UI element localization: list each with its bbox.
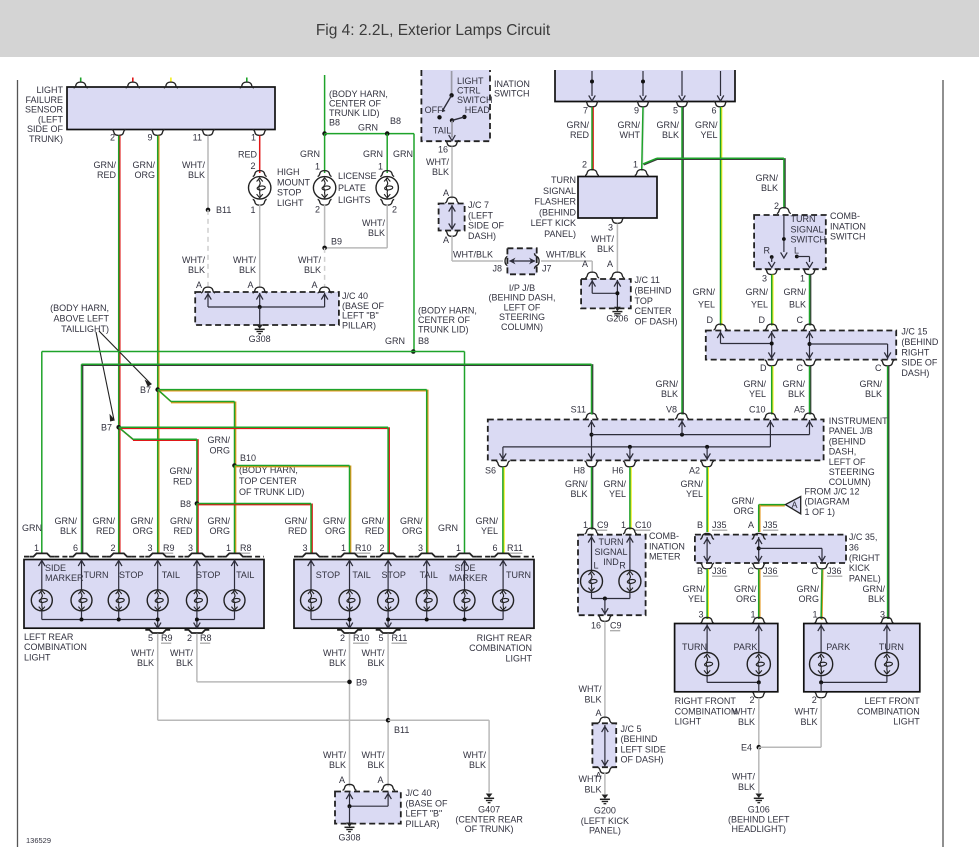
svg-text:LEFT REAR: LEFT REAR [24,632,74,642]
svg-text:B: B [697,566,703,576]
svg-text:RED: RED [570,130,590,140]
svg-text:G206: G206 [606,314,628,324]
light failure sensor box [67,87,275,130]
svg-text:PANEL): PANEL) [589,826,621,836]
svg-text:5: 5 [148,633,153,643]
svg-text:BLK: BLK [570,489,587,499]
svg-text:J/C 5: J/C 5 [621,724,642,734]
svg-text:1: 1 [34,543,39,553]
svg-text:ORG: ORG [798,594,819,604]
svg-text:GRN/: GRN/ [734,584,757,594]
svg-text:1 OF 1): 1 OF 1) [805,507,836,517]
wire GRN/ORG B10 continues to left rear pin1 R8 [235,466,237,554]
wire WHT/BLK I/P J/B to J/C11 [541,260,592,262]
svg-text:TOP: TOP [635,296,653,306]
svg-text:PILLAR): PILLAR) [342,320,376,330]
right rear combination light box [294,560,534,629]
svg-text:FROM J/C 12: FROM J/C 12 [805,487,860,497]
svg-text:2: 2 [250,161,255,171]
svg-text:HEAD: HEAD [465,105,491,115]
svg-text:RED: RED [288,526,308,536]
wire GRN/ORG J/C35 C to right front park [759,569,761,619]
svg-text:L: L [594,561,599,571]
right rear combination light bulb 2 [339,590,360,611]
svg-text:BLK: BLK [329,658,346,668]
svg-text:WHT/BLK: WHT/BLK [546,250,586,260]
J/C11 internal wiring [591,280,593,293]
svg-text:A: A [377,775,383,785]
svg-text:GRN/: GRN/ [131,516,154,526]
wire GRN/BLK J/C15 C to A5 [810,366,812,415]
svg-text:D: D [707,315,714,325]
svg-text:A: A [791,500,797,510]
svg-text:TURN: TURN [551,175,576,185]
svg-text:OF TRUNK): OF TRUNK) [465,824,514,834]
svg-text:GRN/: GRN/ [863,584,886,594]
svg-text:TOP CENTER: TOP CENTER [239,476,297,486]
splice B11 top [206,208,211,213]
svg-text:TURN: TURN [682,642,707,652]
turn signal switch bottom arcs [765,269,779,275]
svg-text:36: 36 [849,542,859,552]
svg-text:YEL: YEL [700,130,717,140]
svg-text:GRN/: GRN/ [744,379,767,389]
wire GRN/BLK ign pin5 to V8 [682,107,684,415]
svg-text:136529: 136529 [26,836,51,845]
svg-text:INATION: INATION [830,221,866,231]
left front combination light box [804,624,920,692]
wire GRN/ORG B7 diagonal branch to B10 [159,390,172,402]
right rear combination light bulb 3 [378,590,399,611]
svg-text:YEL: YEL [686,489,703,499]
turn signal flasher box [578,177,657,219]
svg-text:(BASE OF: (BASE OF [406,798,449,808]
svg-text:TAIL: TAIL [433,126,451,136]
svg-text:YEL: YEL [609,489,626,499]
svg-text:1: 1 [583,520,588,530]
svg-text:GRN/: GRN/ [783,379,806,389]
svg-text:G308: G308 [249,334,271,344]
wire GRN tail bus y351 to rear side markers [41,352,43,554]
svg-text:HIGH: HIGH [277,167,300,177]
svg-text:WHT/: WHT/ [233,255,256,265]
svg-text:GRN/: GRN/ [208,435,231,445]
wire WHT/BLK right front to E4 [758,698,760,747]
svg-text:S6: S6 [485,466,496,476]
svg-text:CTRL: CTRL [457,86,481,96]
svg-text:WHT/: WHT/ [463,750,486,760]
svg-text:YEL: YEL [688,594,705,604]
junction connector J/C 15 box [706,331,896,360]
svg-text:TAIL: TAIL [352,570,370,580]
svg-text:(BEHIND: (BEHIND [635,285,673,295]
left border [17,80,19,847]
svg-text:GRN/: GRN/ [657,120,680,130]
svg-text:OF TRUNK LID): OF TRUNK LID) [239,487,304,497]
left front combination light pin arcs [814,617,828,623]
svg-text:BLK: BLK [469,760,486,770]
svg-text:E4: E4 [741,743,752,753]
svg-text:1: 1 [456,543,461,553]
svg-text:ABOVE LEFT: ABOVE LEFT [53,314,109,324]
J/C15 internal wiring [720,331,722,344]
svg-text:C10: C10 [749,405,766,415]
svg-text:WHT/BLK: WHT/BLK [453,250,493,260]
svg-text:J35: J35 [712,520,727,530]
svg-text:GRN/: GRN/ [400,516,423,526]
svg-text:LEFT OF: LEFT OF [504,302,541,312]
svg-text:RED: RED [173,526,193,536]
svg-text:H6: H6 [612,466,624,476]
svg-text:3: 3 [302,543,307,553]
svg-text:(BEHIND: (BEHIND [621,734,659,744]
wire WHT/BLK high mount to J/C40 [259,204,261,288]
svg-text:TURN: TURN [791,214,816,224]
wire GRN/WHT ign pin9 to flasher pin1 [643,108,644,172]
svg-text:BLK: BLK [432,167,449,177]
svg-text:R10: R10 [355,543,372,553]
svg-text:GRN/: GRN/ [170,516,193,526]
svg-text:GRN/: GRN/ [565,479,588,489]
svg-text:ORG: ORG [736,594,757,604]
svg-text:7: 7 [583,106,588,116]
wire GRN flasher pin1 to turn signal switch pin2 [644,159,658,165]
svg-text:COMBINATION: COMBINATION [857,706,920,716]
svg-text:2: 2 [110,543,115,553]
right rear combination light bulb 6 [493,590,514,611]
svg-text:SIGNAL: SIGNAL [594,547,627,557]
svg-text:RED: RED [238,150,258,160]
svg-text:TURN: TURN [506,570,531,580]
wire GRN B8 bus to right [325,133,414,135]
wire WHT/BLK switch pin16 to J/C7 [451,147,453,199]
svg-text:KICK: KICK [849,563,870,573]
svg-text:TURN: TURN [84,570,109,580]
svg-text:B11: B11 [216,205,231,215]
instrument panel J/B bottom arcs [496,461,510,467]
svg-text:A2: A2 [689,466,700,476]
wire GRN/BLK tss pin1 to J/C15 [810,275,812,326]
svg-text:TRUNK): TRUNK) [29,134,63,144]
wire GRN/BLK J/C15 C to left front turn [888,366,890,619]
svg-text:YEL: YEL [749,389,766,399]
svg-text:BLK: BLK [800,717,817,727]
ground G206 [614,307,621,311]
svg-text:GRN/: GRN/ [55,516,78,526]
svg-text:(BASE OF: (BASE OF [342,301,385,311]
svg-text:YEL: YEL [698,300,715,310]
svg-text:WHT/: WHT/ [362,648,385,658]
svg-text:G200: G200 [594,806,616,816]
wire WHT/BLK B11 to G407 [388,719,489,721]
svg-text:STOP: STOP [382,570,406,580]
light control switch box [421,70,490,141]
svg-text:DASH): DASH) [468,231,496,241]
svg-text:3: 3 [418,543,423,553]
svg-text:ORG: ORG [209,526,230,536]
svg-text:GRN/: GRN/ [683,584,706,594]
svg-text:FLASHER: FLASHER [534,197,576,207]
wire GRN/YEL tss pin3 to J/C15 [772,275,774,326]
flasher bottom pin arc [610,218,624,224]
splice B10 [232,463,237,468]
svg-text:B: B [697,520,703,530]
svg-text:BLK: BLK [662,130,679,140]
svg-text:DASH): DASH) [901,368,929,378]
svg-text:GRN: GRN [22,523,42,533]
svg-text:1: 1 [812,610,817,620]
light switch internal contacts [451,71,453,95]
svg-text:WHT/: WHT/ [131,648,154,658]
title bar [0,0,979,57]
svg-text:3: 3 [762,274,767,284]
svg-text:OF DASH): OF DASH) [635,317,678,327]
wire GRN/ORG B7 to right rear tail pin3 [158,390,427,392]
svg-text:LICENSE: LICENSE [338,171,377,181]
svg-text:STEERING: STEERING [829,467,875,477]
left rear combination light bulb 4 [147,590,168,611]
junction connector J/C 40 bottom box [335,792,401,824]
svg-text:LIGHTS: LIGHTS [338,195,371,205]
turn signal switch pin2 arc [777,208,791,214]
svg-text:C: C [797,315,804,325]
svg-text:RED: RED [96,526,116,536]
svg-text:(BEHIND: (BEHIND [901,337,939,347]
pin 16 arc light switch [445,141,459,147]
svg-text:WHT/: WHT/ [298,255,321,265]
svg-text:(CENTER REAR: (CENTER REAR [455,815,523,825]
license plate light bulb 1 [318,171,332,177]
meter top arcs [585,528,599,534]
svg-text:S11: S11 [571,405,586,415]
svg-text:WHT/: WHT/ [579,684,602,694]
right front park bulb [747,653,770,676]
svg-text:LEFT SIDE: LEFT SIDE [621,744,666,754]
svg-text:2: 2 [340,633,345,643]
svg-text:GRN/: GRN/ [756,173,779,183]
svg-text:R11: R11 [507,543,523,553]
svg-text:GRN/: GRN/ [746,287,769,297]
svg-text:J36: J36 [827,566,842,576]
svg-text:PLATE: PLATE [338,183,366,193]
svg-text:WHT/: WHT/ [732,772,755,782]
wire GRN/YEL S6 to right rear pin6 [503,467,505,553]
turn signal ind bulb R [619,570,641,592]
ground G200 [602,795,609,799]
svg-text:B7: B7 [140,385,151,395]
svg-text:GRN/: GRN/ [208,516,231,526]
svg-text:(BEHIND: (BEHIND [539,207,577,217]
wire GRN/YEL ign pin6 to J/C15 pin D [721,107,723,326]
svg-text:BLK: BLK [176,658,193,668]
svg-text:2: 2 [187,633,192,643]
svg-text:WHT/: WHT/ [323,750,346,760]
svg-text:CENTER: CENTER [635,306,673,316]
left front bottom pin [814,692,828,698]
wire GRN/RED B8 to right rear stop pin3 [197,504,311,506]
ignition switch box (cut at top) [555,70,735,102]
svg-text:PANEL): PANEL) [544,229,576,239]
wire GRN/ORG J/C35 C to left front park [821,570,824,620]
svg-text:LIGHT: LIGHT [505,653,532,663]
svg-text:LEFT "B": LEFT "B" [342,311,379,321]
svg-text:R8: R8 [240,543,252,553]
svg-text:GRN/: GRN/ [94,160,117,170]
right rear combination light connector dashed line with pin hats [294,556,299,558]
svg-text:TAIL: TAIL [420,570,438,580]
svg-text:C: C [812,566,819,576]
splice B7 upper [155,387,160,392]
svg-text:R9: R9 [163,543,175,553]
svg-text:B8: B8 [329,118,340,128]
svg-text:A: A [443,235,449,245]
svg-text:SIDE: SIDE [455,563,476,573]
splice B8 stop circuit [195,501,200,506]
svg-text:WHT/: WHT/ [182,160,205,170]
turn signal switch internals [783,216,785,252]
ground G407 [486,794,493,798]
svg-text:STOP: STOP [196,570,220,580]
svg-text:1: 1 [621,520,626,530]
svg-text:GRN/: GRN/ [695,120,718,130]
svg-text:BLK: BLK [188,170,205,180]
svg-text:SWITCH: SWITCH [791,235,827,245]
svg-text:GRN/: GRN/ [567,120,590,130]
svg-text:INSTRUMENT: INSTRUMENT [829,416,888,426]
splice B11 bottom [386,718,391,723]
svg-text:(BODY HARN,: (BODY HARN, [50,303,109,313]
svg-text:J/C 11: J/C 11 [635,275,660,285]
turn signal ind bulb L [581,570,603,592]
wire WHT/BLK E4 to G106 [758,747,760,793]
wire WHT/BLK license bulb2 to B9 [386,204,388,248]
svg-text:GRN/: GRN/ [656,379,679,389]
svg-text:2: 2 [392,205,397,215]
svg-text:A: A [247,280,253,290]
wire GRN/BLK H8 to meter C9 [592,467,594,530]
svg-text:WHT/: WHT/ [362,218,385,228]
ground G308 top [256,325,263,329]
svg-text:A: A [582,259,588,269]
svg-text:3: 3 [188,543,193,553]
splice B8 left [322,131,327,136]
svg-text:PANEL J/B: PANEL J/B [829,426,873,436]
svg-text:1: 1 [250,205,255,215]
svg-text:GRN/: GRN/ [618,120,641,130]
splice B8 right [385,131,390,136]
instrument panel J/B internal wiring [591,420,593,460]
svg-text:1: 1 [341,543,346,553]
svg-text:C: C [797,363,804,373]
svg-text:WHT/: WHT/ [579,774,602,784]
ground G106 [756,794,763,798]
svg-text:HEADLIGHT): HEADLIGHT) [732,824,787,834]
svg-text:GRN: GRN [358,123,378,133]
junction connector J/C 5 box [598,717,612,723]
right rear combination light bulb 4 [416,590,437,611]
svg-text:6: 6 [492,543,497,553]
high mount stop light bulb [253,171,267,177]
svg-text:3: 3 [147,543,152,553]
svg-text:1: 1 [800,274,805,284]
wire WHT/BLK right rear R11 down through B11 to J/C40 [387,634,389,787]
svg-text:RIGHT REAR: RIGHT REAR [477,633,533,643]
svg-text:1: 1 [251,133,256,143]
svg-text:BLK: BLK [368,228,385,238]
svg-text:WHT: WHT [620,130,641,140]
wire WHT/BLK dashed B11 to J/C40 [207,210,209,288]
svg-text:RED: RED [365,526,385,536]
from J/C12 triangle [785,497,800,514]
svg-text:GRN/: GRN/ [604,479,627,489]
svg-text:SWITCH: SWITCH [830,232,866,242]
svg-text:R11: R11 [392,633,408,643]
svg-text:SWITCH: SWITCH [457,95,493,105]
svg-text:PARK: PARK [734,642,758,652]
svg-text:GRN/: GRN/ [285,516,308,526]
svg-text:GRN/: GRN/ [362,516,385,526]
svg-text:TURN: TURN [599,537,624,547]
svg-text:BLK: BLK [367,760,384,770]
svg-text:G308: G308 [338,833,360,843]
wire GRN/YEL A2 to J/C35 pin B [707,467,709,532]
svg-text:1: 1 [633,160,638,170]
svg-text:RED: RED [97,170,117,180]
svg-text:A: A [196,280,202,290]
svg-text:BLK: BLK [367,658,384,668]
svg-text:G106: G106 [748,805,770,815]
left rear combination light bulb 3 [108,590,129,611]
svg-text:GRN: GRN [363,149,383,159]
meter bottom arc [598,616,612,622]
J/C35 internal wiring [706,537,708,563]
svg-text:11: 11 [193,133,202,143]
svg-text:LIGHT: LIGHT [24,652,51,662]
svg-text:WHT/: WHT/ [362,750,385,760]
svg-text:WHT/: WHT/ [323,648,346,658]
wire GRN/RED sensor pin2 to B7 to left rear pin2 [119,136,121,554]
ground G308 bottom [346,823,353,827]
svg-text:MOUNT: MOUNT [277,177,310,187]
svg-text:GRN/: GRN/ [681,479,704,489]
svg-text:LIGHT: LIGHT [893,717,920,727]
svg-text:TAILLIGHT): TAILLIGHT) [61,324,109,334]
junction connector J/C 40 top box [195,292,339,325]
wire GRN/BLK turn bus y364 from left rear pin6 to S11 [82,364,84,553]
svg-text:ORG: ORG [209,445,230,455]
svg-text:ORG: ORG [132,526,153,536]
svg-text:LIGHT: LIGHT [675,717,702,727]
wire GRN/YEL J/C35 B to right front turn [707,569,709,619]
svg-text:WHT/: WHT/ [732,707,755,717]
wire GRN B8 to license bulb1 [324,134,326,173]
svg-text:C9: C9 [597,520,609,530]
svg-text:I/P J/B: I/P J/B [509,283,535,293]
svg-text:TRUNK LID): TRUNK LID) [329,108,380,118]
svg-text:BLK: BLK [188,265,205,275]
svg-text:BLK: BLK [738,717,755,727]
svg-text:STEERING: STEERING [499,312,545,322]
svg-text:GRN/: GRN/ [860,379,883,389]
svg-text:COMB-: COMB- [649,531,679,541]
svg-text:COLUMN): COLUMN) [501,322,543,332]
svg-text:L: L [794,246,799,256]
svg-text:D: D [760,363,767,373]
svg-text:BLK: BLK [239,265,256,275]
svg-text:WHT/: WHT/ [591,234,614,244]
svg-text:BLK: BLK [304,265,321,275]
svg-text:C: C [875,363,882,373]
